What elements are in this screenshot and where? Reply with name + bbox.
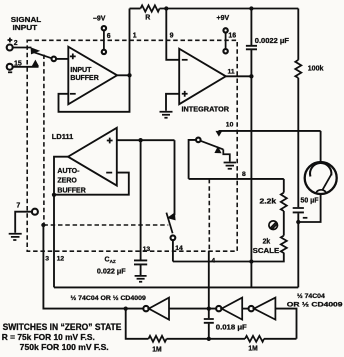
wire mid bottom	[167, 338, 246, 340]
svg-text:8: 8	[242, 171, 246, 178]
svg-text:7: 7	[16, 203, 20, 210]
switch S1 contact	[52, 57, 57, 62]
switch S3 blade	[166, 213, 172, 234]
op-amp U2 integrator	[179, 49, 226, 104]
node U1 output	[127, 73, 131, 77]
svg-text:ZERO: ZERO	[57, 178, 77, 185]
node 50uF bottom	[296, 220, 300, 224]
wire integrator output down	[250, 76, 252, 287]
ground (integrator +)	[160, 112, 173, 118]
switch S3 contact	[171, 235, 176, 240]
node U3 output	[52, 193, 56, 197]
node 0.018 bottom	[207, 337, 211, 341]
pin 3 wire	[43, 225, 143, 309]
svg-text:R: R	[145, 15, 150, 22]
svg-text:4: 4	[211, 257, 215, 264]
svg-text:3: 3	[45, 256, 49, 263]
ground (Caz)	[135, 276, 147, 282]
svg-text:750k FOR 100 mV F.S.: 750k FOR 100 mV F.S.	[20, 343, 109, 352]
wire invB-invC	[242, 308, 248, 310]
wire top rail left	[130, 8, 141, 10]
svg-text:0.022 μF: 0.022 μF	[97, 268, 127, 275]
svg-text:6: 6	[107, 33, 111, 40]
inverter B	[216, 306, 221, 311]
switch S1 blade	[34, 52, 51, 58]
trimmer wiper symbol	[269, 221, 278, 230]
wire U2 output	[226, 75, 252, 77]
svg-text:9: 9	[170, 32, 174, 39]
op-amp U1 input buffer	[68, 47, 117, 105]
svg-text:13: 13	[143, 246, 151, 253]
svg-text:1M: 1M	[248, 345, 258, 352]
dashed switch linkage horizontal	[43, 224, 168, 226]
pin 9 wire	[166, 9, 179, 60]
svg-text:16: 16	[228, 32, 236, 39]
wire 2.2k to 2k	[283, 211, 285, 236]
svg-text:OR ½ CD4009: OR ½ CD4009	[287, 301, 343, 309]
node Caz	[138, 138, 142, 142]
svg-text:LD111: LD111	[52, 132, 74, 141]
switch S1 NC arrow	[32, 60, 39, 67]
wire from terminal 2	[13, 47, 32, 49]
svg-text:R = 75k FOR 10 mV F.S.: R = 75k FOR 10 mV F.S.	[2, 333, 95, 342]
resistor R	[141, 5, 160, 11]
meter M1	[320, 131, 322, 162]
dashed box LD111	[27, 40, 237, 251]
wire from terminal 15	[13, 66, 39, 68]
svg-text:BUFFER: BUFFER	[57, 188, 85, 195]
wire invC input	[275, 309, 296, 339]
svg-text:12: 12	[57, 256, 65, 263]
wire contact to buffer	[56, 58, 68, 60]
svg-text:1: 1	[133, 32, 137, 39]
svg-text:AUTO-: AUTO-	[57, 168, 80, 175]
pin 1 wire	[129, 9, 131, 76]
pin 8 rail	[189, 178, 284, 180]
wire U3 + input rail	[117, 139, 175, 141]
dashed switch linkage vertical	[43, 55, 45, 226]
svg-text:½ 74C04 OR ½ CD4009: ½ 74C04 OR ½ CD4009	[71, 294, 147, 302]
switch S3 arrow	[167, 212, 176, 220]
node inverter feedback left	[124, 306, 128, 310]
resistor 2.2k	[283, 179, 285, 193]
capacitor 0.0022 uF	[250, 9, 252, 46]
wire U3 feedback	[55, 173, 129, 195]
pin 10 / meter top rail	[219, 130, 321, 132]
dashed pin 4 linkage	[208, 179, 210, 251]
svg-text:SWITCHES IN “ZERO” STATE: SWITCHES IN “ZERO” STATE	[3, 322, 122, 332]
pin 14 wire	[172, 240, 174, 261]
svg-text:14: 14	[175, 245, 183, 252]
node linkage	[41, 223, 45, 227]
terminal 15 (-)	[7, 64, 13, 70]
svg-text:½ 74C04: ½ 74C04	[297, 292, 325, 300]
switch S2 blade	[201, 141, 224, 150]
svg-text:2: 2	[14, 40, 18, 47]
node rail-9	[164, 6, 168, 10]
svg-text:0.0022 μF: 0.0022 μF	[255, 38, 290, 45]
inverter C	[249, 306, 254, 311]
node y261	[249, 259, 253, 263]
svg-text:50 μF: 50 μF	[301, 198, 320, 205]
switch S1 blade arrow	[31, 47, 41, 54]
svg-text:2.2k: 2.2k	[260, 198, 277, 205]
svg-text:1M: 1M	[152, 347, 162, 354]
wire invA-invB	[169, 308, 216, 310]
resistor 1M (right)	[245, 336, 264, 342]
wire top rail right	[160, 8, 299, 10]
inverter A	[143, 306, 148, 311]
svg-text:10: 10	[226, 121, 234, 128]
switch S2 arrow	[214, 146, 221, 153]
node U2 output	[249, 74, 253, 78]
ground (S2)	[224, 163, 236, 169]
svg-text:0.018 μF: 0.018 μF	[216, 325, 248, 332]
resistor 100k	[297, 9, 299, 60]
svg-text:INTEGRATOR: INTEGRATOR	[182, 104, 230, 113]
wire U3 + down to S3	[174, 140, 176, 215]
svg-text:–9V: –9V	[93, 15, 106, 22]
wire U2 + to ground	[166, 94, 179, 111]
svg-text:INPUT: INPUT	[13, 23, 38, 32]
node 0.018 top	[207, 306, 211, 310]
wire y261	[173, 253, 284, 262]
wire bottom right	[264, 338, 297, 340]
resistor 2k SCALE	[281, 236, 287, 253]
pin 12 bottom wire	[54, 286, 298, 288]
op-amp U3 auto-zero buffer	[68, 128, 117, 186]
wire U1 output	[117, 74, 129, 76]
node rail-cap	[249, 6, 253, 10]
capacitor 0.018 uF	[208, 309, 210, 319]
resistor 1M (left)	[149, 336, 167, 342]
ground (pin 7)	[9, 234, 22, 240]
svg-text:BUFFER: BUFFER	[70, 75, 98, 82]
svg-text:2k: 2k	[263, 238, 271, 245]
wire feedback bottom left	[126, 309, 149, 339]
terminal 2 (+)	[7, 45, 13, 51]
svg-text:INPUT: INPUT	[70, 67, 92, 74]
wire U1 feedback loop	[59, 75, 130, 112]
svg-text:SCALE: SCALE	[253, 248, 280, 255]
capacitor Caz	[140, 140, 142, 259]
switch S2 pivot	[196, 138, 201, 143]
wire U3 output	[54, 157, 68, 288]
pin 4 wire solid	[208, 251, 210, 309]
wire S2 blade to ground	[223, 149, 230, 161]
svg-text:11: 11	[228, 69, 235, 76]
svg-text:+9V: +9V	[217, 15, 230, 22]
pin 10 arrow contact	[216, 131, 223, 137]
wire S2 pivot to rail	[189, 140, 196, 179]
svg-text:100k: 100k	[308, 63, 324, 72]
